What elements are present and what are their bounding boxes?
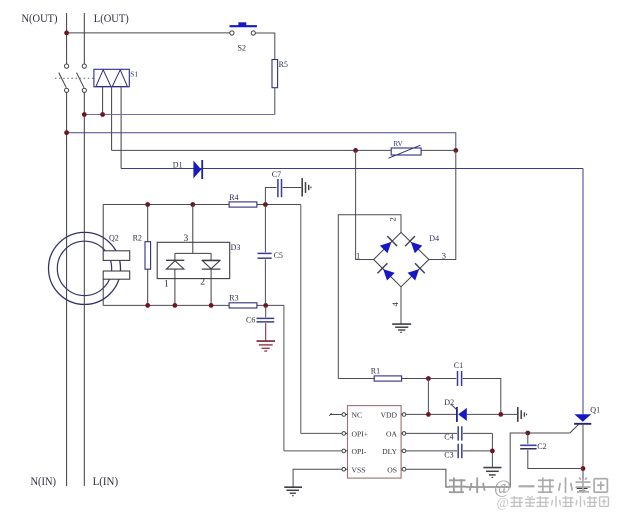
ground (VDD, rotated)	[517, 407, 519, 422]
svg-text:Q1: Q1	[590, 406, 600, 415]
wire bridge pin4	[400, 287, 402, 324]
op-amp IC U1	[348, 406, 402, 479]
capacitor C7	[277, 179, 279, 197]
wire CT upper tap	[102, 205, 104, 251]
junction N/S2-bus	[64, 31, 69, 36]
svg-text:C6: C6	[246, 316, 255, 325]
svg-text:3: 3	[442, 251, 446, 261]
wire L rail top	[83, 13, 85, 64]
junction S1/coil-bus	[100, 112, 105, 117]
wire L rail bottom	[83, 92, 85, 486]
capacitor C5	[264, 206, 266, 252]
svg-text:C1: C1	[454, 361, 463, 370]
svg-text:R1: R1	[371, 367, 380, 376]
junction bot/D3 pin1	[173, 303, 178, 308]
capacitor C1	[457, 371, 459, 386]
IC pin circles	[342, 413, 346, 417]
junction VDD/C1	[498, 412, 503, 417]
junction R1/C1/VDD	[426, 376, 431, 381]
bridge edges	[374, 232, 401, 259]
relay coil S1	[94, 69, 129, 87]
svg-text:R2: R2	[133, 234, 142, 243]
wire sense bus bottom	[103, 304, 284, 306]
wire D3 pin1	[174, 269, 176, 305]
svg-text:NC: NC	[352, 411, 363, 420]
wire VDD line	[406, 413, 457, 415]
junction N/net-B	[64, 130, 69, 135]
bridge diode D4b	[411, 242, 423, 253]
bridge diode D4c	[383, 269, 395, 280]
ground (bridge)	[392, 323, 411, 325]
junction C3/gnd drop	[490, 449, 495, 454]
resistor R3	[229, 303, 257, 308]
wire N rail top	[66, 13, 68, 64]
wire CT lower tap	[102, 279, 104, 305]
wire S2 to R5	[255, 33, 274, 60]
wire bridge pin1	[356, 150, 374, 259]
svg-text:VSS: VSS	[352, 465, 366, 474]
diode D3a	[166, 259, 184, 261]
junction top/D3 pin3	[190, 202, 195, 207]
svg-text:R4: R4	[229, 193, 238, 202]
junction bot/R2	[145, 303, 150, 308]
svg-text:C3: C3	[444, 451, 453, 460]
ground (C7, rotated)	[301, 178, 303, 196]
junction Q1/C2 return	[581, 466, 586, 471]
svg-text:C5: C5	[274, 251, 283, 260]
thyristor Q1	[574, 414, 591, 422]
wire D3 pin2	[210, 269, 212, 305]
capacitor C4	[406, 432, 457, 434]
wire bridge pin3	[429, 151, 456, 260]
svg-text:L(OUT): L(OUT)	[94, 11, 129, 25]
svg-text:Q2: Q2	[109, 234, 119, 243]
svg-text:2: 2	[388, 217, 398, 221]
wire bridge pin2	[338, 215, 401, 379]
wire net B (N to bridge)	[67, 133, 456, 151]
wire coil bus y114	[84, 114, 274, 116]
svg-text:C4: C4	[444, 433, 453, 442]
wire RV line	[112, 149, 456, 151]
svg-text:D2: D2	[444, 398, 454, 407]
junction RV-line/bridge pin1	[353, 148, 358, 153]
svg-text:S1: S1	[130, 70, 138, 79]
wire OPI- feed	[284, 450, 342, 452]
svg-text:N(OUT): N(OUT)	[22, 11, 58, 25]
resistor R2	[147, 205, 149, 242]
junction R3/C6	[263, 303, 268, 308]
svg-text:C2: C2	[537, 442, 546, 451]
wire OPI+ feed	[301, 432, 342, 434]
svg-text:S2: S2	[238, 44, 246, 53]
svg-text:C7: C7	[272, 170, 281, 179]
junction gate/C2	[525, 431, 530, 436]
svg-text:R5: R5	[279, 60, 288, 69]
svg-text:N(IN): N(IN)	[31, 474, 57, 488]
TVS D3 box	[157, 242, 230, 278]
svg-text:D3: D3	[231, 243, 241, 252]
bridge diode D4a	[380, 242, 392, 253]
svg-text:R3: R3	[229, 294, 238, 303]
D3 internal	[175, 252, 211, 254]
wire sense bus top	[103, 204, 301, 206]
wire Q1 anode drop	[582, 169, 584, 415]
svg-text:VDD: VDD	[381, 411, 398, 420]
svg-text:OS: OS	[387, 465, 397, 474]
junction top/R2	[145, 202, 150, 207]
svg-text:1: 1	[164, 280, 169, 290]
varistor RV	[391, 148, 421, 155]
wire to OPI+ vertical	[300, 205, 302, 434]
junction VDD/R1drop	[426, 412, 431, 417]
svg-text:OPI+: OPI+	[352, 430, 369, 439]
watermark line 2	[497, 495, 609, 510]
wire S2 bus	[67, 32, 230, 34]
resistor R5	[272, 60, 278, 88]
pushbutton S2	[230, 31, 234, 35]
wire VDD/C1 drop	[427, 379, 429, 415]
ground (C3/C4)	[483, 467, 501, 469]
wire C4/C3 to ground	[491, 433, 493, 467]
switch S1b contact L (part of breaker)	[82, 64, 86, 68]
current transformer Q2	[49, 232, 121, 304]
wire C7 to ground	[283, 187, 302, 189]
wire VSS to ground	[293, 469, 342, 487]
wire D2 to ground	[467, 413, 517, 415]
svg-text:L(IN): L(IN)	[93, 474, 119, 488]
junction R4/C7/C5	[263, 202, 268, 207]
wire N rail bottom	[66, 92, 68, 486]
junction RV-line/net-B/pin3	[453, 148, 458, 153]
capacitor C2	[527, 433, 529, 444]
resistor R4	[229, 202, 257, 207]
resistor R1	[338, 378, 374, 380]
capacitor C6	[265, 307, 267, 318]
svg-text:D1: D1	[173, 161, 183, 170]
diode D1	[193, 161, 201, 179]
ground (C6)	[257, 340, 276, 342]
svg-text:@: @	[497, 495, 509, 510]
svg-text:OA: OA	[386, 430, 397, 439]
wire R5 to coil bus	[274, 88, 276, 115]
ground (VSS)	[284, 486, 302, 488]
wire D1 line	[121, 168, 583, 170]
wire D3 pin3	[192, 205, 194, 254]
watermark line 1	[449, 478, 607, 499]
wire to OPI- vertical	[283, 305, 285, 451]
svg-text:RV: RV	[394, 140, 403, 148]
switch S1a contact N (part of breaker)	[65, 64, 69, 68]
junction bot/D3 pin2	[209, 303, 214, 308]
svg-text:1: 1	[356, 251, 360, 261]
diode D3b	[202, 259, 221, 261]
junction L/coil-bus	[82, 112, 87, 117]
bridge diode D4d	[408, 269, 420, 280]
svg-text:D4: D4	[429, 234, 439, 243]
wire S1 pin right	[120, 87, 122, 169]
svg-text:3: 3	[184, 234, 189, 244]
wire S1 pin mid	[111, 87, 113, 151]
capacitor C3	[406, 450, 457, 452]
svg-text:OPI-: OPI-	[352, 447, 367, 456]
wire Q1 cathode	[582, 424, 584, 488]
wire S1 pin left	[102, 87, 104, 115]
wire C7 branch	[265, 188, 276, 204]
wire C6 to ground	[265, 323, 267, 341]
mechanical linkage (dashed)	[55, 77, 94, 79]
diode D2	[456, 407, 458, 422]
svg-text:DLY: DLY	[382, 447, 397, 456]
wire NC stub	[330, 414, 342, 416]
svg-text:2: 2	[200, 278, 205, 288]
wire OS to gate	[406, 433, 570, 487]
ground (Q1, small)	[577, 487, 588, 489]
